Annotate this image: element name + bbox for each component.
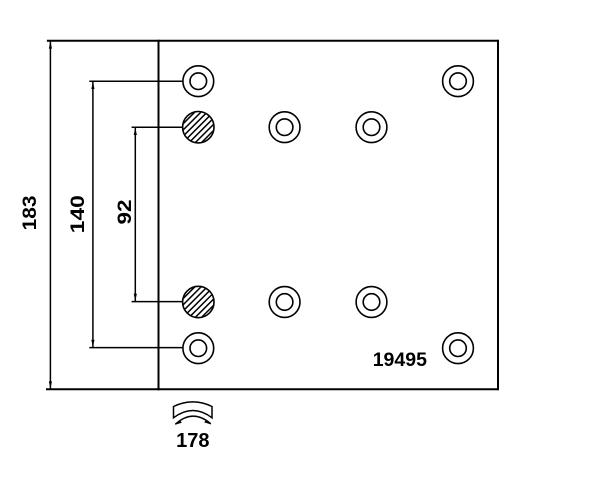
dimension 140 extension line bottom <box>89 347 183 349</box>
hole rivet row2 mid-2 outer <box>356 112 387 143</box>
hole guide pin hatched bottom <box>183 286 214 317</box>
dimension 92 extension line top <box>132 126 183 128</box>
hole rivet bottom-right outer <box>443 333 474 364</box>
hole rivet bottom-right inner <box>450 340 467 357</box>
dimension 140 vertical line <box>92 81 94 347</box>
dimension 183 arrow top <box>49 42 52 49</box>
dimension 178 measurement arc <box>175 416 210 424</box>
hole rivet top-right inner <box>450 73 467 90</box>
hole guide pin hatched top <box>183 112 214 143</box>
hole rivet row3 mid-1 inner <box>276 294 293 311</box>
svg-text:178: 178 <box>176 430 209 452</box>
hole rivet row2 mid-2 inner <box>363 119 380 136</box>
svg-text:183: 183 <box>20 195 41 230</box>
dimension 178 arrow right <box>204 420 211 425</box>
hole rivet row2 mid-1 outer <box>269 112 300 143</box>
lining left edge vertical line <box>158 40 160 390</box>
hole rivet row3 mid-2 outer <box>356 287 387 318</box>
hole rivet top-left outer <box>183 66 214 97</box>
hole rivet top-left inner <box>190 73 207 90</box>
svg-text:140: 140 <box>68 195 89 233</box>
hole rivet bottom-left outer <box>183 333 214 364</box>
dimension 183 arrow bottom <box>49 381 52 388</box>
hole rivet row3 mid-1 outer <box>269 287 300 318</box>
hole rivet bottom-left inner <box>190 340 207 357</box>
lining outline top edge (extended left for dimension) <box>47 40 498 42</box>
dimension 92 vertical line <box>134 127 136 301</box>
dimension 140 arrow top <box>91 82 94 89</box>
dimension 140 extension line top <box>89 80 183 82</box>
svg-text:19495: 19495 <box>373 349 427 371</box>
hole rivet row3 mid-2 inner <box>363 294 380 311</box>
hole rivet top-right outer <box>443 66 474 97</box>
dimension 183 vertical line <box>49 41 51 389</box>
dimension 92 extension line bottom <box>132 301 183 303</box>
dimension 140 arrow bottom <box>91 340 94 347</box>
dimension 92 arrow bottom <box>134 294 137 301</box>
lining outline bottom edge (extended left for dimension) <box>46 388 498 390</box>
svg-text:92: 92 <box>115 200 136 225</box>
lining outline right edge <box>497 40 499 390</box>
hole rivet row2 mid-1 inner <box>276 119 293 136</box>
dimension 178 arrow left <box>175 420 182 425</box>
dimension 92 arrow top <box>134 128 137 135</box>
lining cross-section curved band symbol <box>174 402 213 418</box>
